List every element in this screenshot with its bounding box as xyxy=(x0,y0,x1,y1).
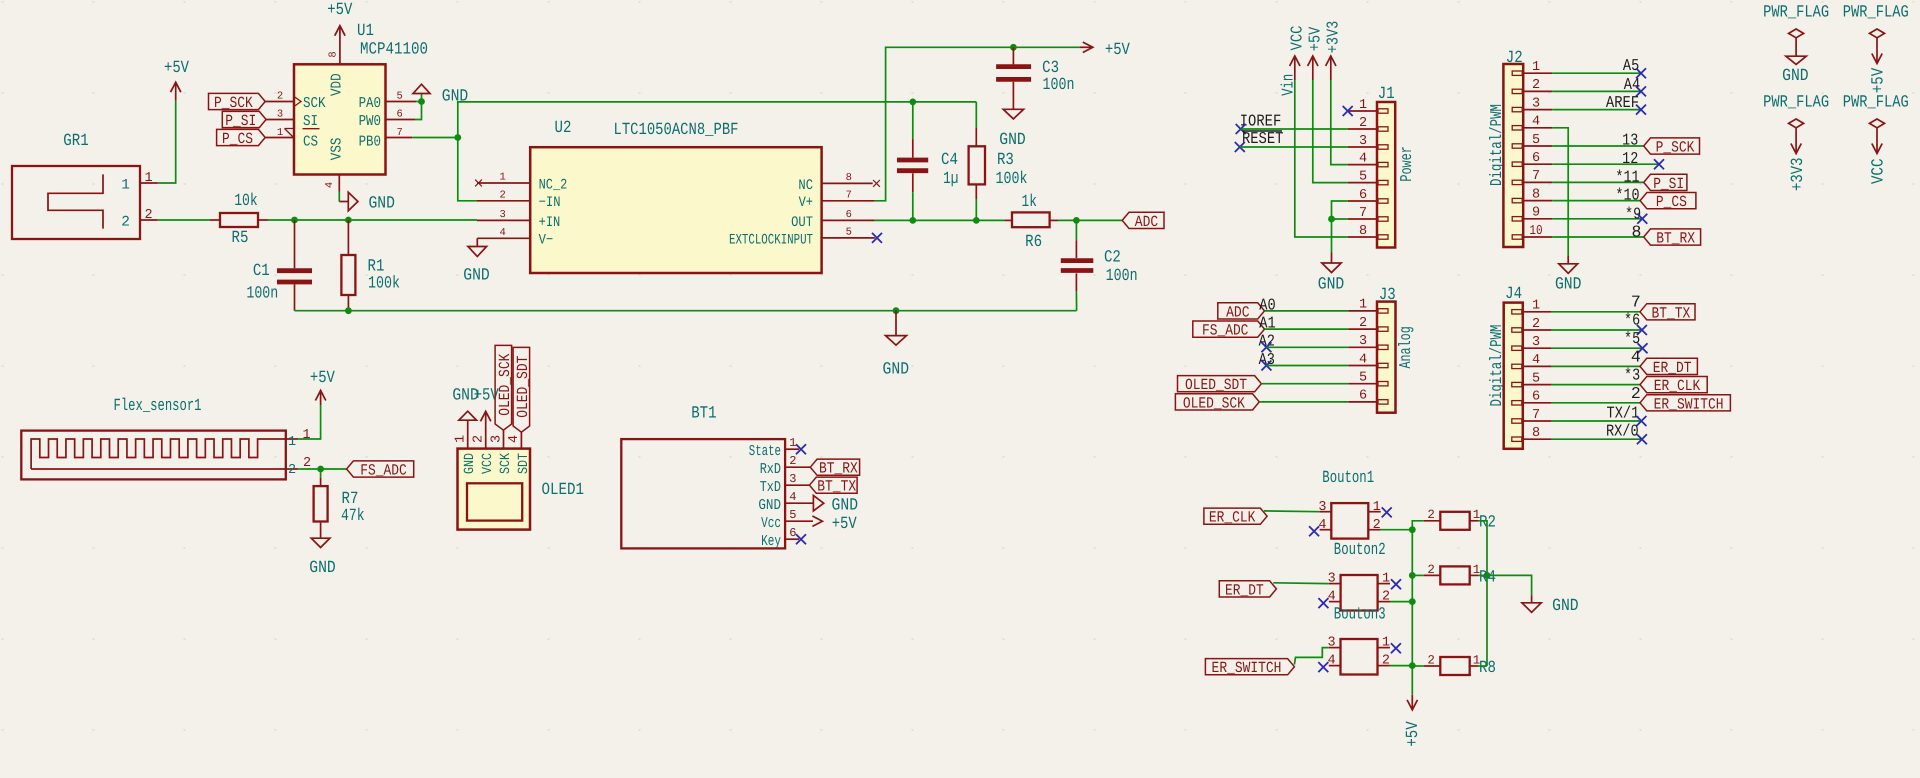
svg-text:*9: *9 xyxy=(1625,204,1641,223)
ground (U2 V-) xyxy=(463,238,490,285)
svg-text:ER_SWITCH: ER_SWITCH xyxy=(1654,395,1724,413)
global label ER_SWITCH (Bouton3) xyxy=(1205,659,1294,675)
svg-text:+5V: +5V xyxy=(310,369,336,388)
svg-text:3: 3 xyxy=(1318,500,1326,515)
svg-text:GND: GND xyxy=(999,131,1026,150)
svg-text:7: 7 xyxy=(1359,206,1367,221)
junction C4 bottom xyxy=(909,217,916,224)
module OLED1 xyxy=(454,435,585,530)
svg-text:BT_TX: BT_TX xyxy=(1652,304,1691,322)
pin State wire xyxy=(785,448,799,450)
svg-text:C4: C4 xyxy=(941,151,958,170)
svg-text:5: 5 xyxy=(397,91,403,103)
svg-text:BT_TX: BT_TX xyxy=(817,478,856,496)
svg-text:8: 8 xyxy=(1632,223,1642,242)
power flag PWR_FLAG +3V3 xyxy=(1763,93,1829,191)
pin 6 xyxy=(1523,163,1552,165)
svg-text:10k: 10k xyxy=(234,192,258,211)
svg-text:100n: 100n xyxy=(1043,76,1075,95)
svg-text:FS_ADC: FS_ADC xyxy=(360,462,407,480)
junction PA0 xyxy=(418,98,425,105)
junction bus Bouton1 xyxy=(1409,526,1416,533)
wire feedback down to R3 xyxy=(975,102,977,128)
svg-text:2: 2 xyxy=(1631,384,1641,403)
connector J3 Analog xyxy=(1348,286,1415,413)
svg-text:+5V: +5V xyxy=(832,515,858,534)
svg-text:GND: GND xyxy=(1318,276,1345,295)
svg-text:*3: *3 xyxy=(1624,365,1640,384)
svg-text:VDD: VDD xyxy=(328,73,345,96)
svg-text:4: 4 xyxy=(499,227,505,239)
pin 1 xyxy=(1368,511,1380,513)
wire J2 pin7 xyxy=(1552,181,1644,183)
svg-text:5: 5 xyxy=(1359,371,1367,386)
svg-text:4: 4 xyxy=(1318,518,1326,533)
svg-text:ADC: ADC xyxy=(1135,213,1158,231)
svg-text:47k: 47k xyxy=(341,507,365,526)
junction C3 top xyxy=(1010,44,1017,51)
svg-text:2: 2 xyxy=(1373,518,1381,533)
svg-text:TxD: TxD xyxy=(760,479,781,496)
svg-text:*5: *5 xyxy=(1624,329,1640,348)
svg-text:A5: A5 xyxy=(1623,56,1639,75)
pin 5 xyxy=(1523,384,1552,386)
svg-text:PA0: PA0 xyxy=(359,95,381,112)
svg-text:5: 5 xyxy=(789,508,796,522)
wire J3 pin5 xyxy=(1261,383,1348,385)
svg-text:GND: GND xyxy=(442,87,469,106)
svg-text:CS: CS xyxy=(303,133,318,150)
svg-text:R6: R6 xyxy=(1025,233,1042,252)
svg-text:3: 3 xyxy=(1532,335,1540,350)
wire J2 pin10 xyxy=(1552,236,1644,238)
svg-text:1: 1 xyxy=(121,178,130,194)
svg-text:GND: GND xyxy=(368,194,395,213)
power VCC (J1) xyxy=(1287,25,1306,80)
svg-text:2: 2 xyxy=(1359,116,1367,131)
wire GR1 pin1 to +5V xyxy=(158,101,176,183)
svg-text:1: 1 xyxy=(1382,572,1390,587)
wire R5 to +IN rail xyxy=(268,219,477,221)
global label BT_RX (BT1) xyxy=(810,459,859,475)
wire -IN feedback vertical xyxy=(458,102,977,201)
svg-text:3: 3 xyxy=(1532,96,1540,111)
pin 1 xyxy=(1523,311,1552,313)
svg-text:3: 3 xyxy=(277,109,283,121)
power +5V (GR1) xyxy=(164,59,190,101)
svg-text:GND: GND xyxy=(1782,67,1809,86)
svg-text:GND: GND xyxy=(883,360,910,379)
svg-text:+3V3: +3V3 xyxy=(1789,157,1808,191)
svg-text:GND: GND xyxy=(758,497,781,514)
svg-text:SCK: SCK xyxy=(303,95,326,112)
ground (OLED pin1) xyxy=(452,387,479,449)
junction bus Bouton2 xyxy=(1409,598,1416,605)
pin 2 xyxy=(140,219,158,221)
wire bottom GND-side rail xyxy=(295,310,1077,312)
global label P_SI xyxy=(222,111,266,127)
no-connect 12 xyxy=(1654,159,1664,169)
pin 3 xyxy=(1329,583,1341,585)
svg-text:4: 4 xyxy=(1328,654,1336,669)
svg-text:1µ: 1µ xyxy=(943,170,958,189)
svg-text:2: 2 xyxy=(1427,563,1435,577)
wire V+ to +5V rail xyxy=(875,47,1080,201)
power flag PWR_FLAG GND xyxy=(1763,3,1829,85)
wire J4 pin4 xyxy=(1552,365,1640,367)
pin 4 xyxy=(1523,127,1552,129)
pin 2 xyxy=(1368,529,1380,531)
pin 6 xyxy=(1348,200,1377,202)
wire bus to R4 xyxy=(1412,574,1424,576)
svg-text:NC: NC xyxy=(798,178,813,194)
pin 2 xyxy=(1348,328,1377,330)
svg-text:FS_ADC: FS_ADC xyxy=(1202,322,1249,340)
pin 2 xyxy=(1523,329,1552,331)
svg-text:3: 3 xyxy=(1328,572,1336,587)
svg-text:5: 5 xyxy=(1532,371,1540,386)
resistor R3 xyxy=(969,128,1028,199)
svg-text:ADC: ADC xyxy=(1226,303,1249,321)
pin 1 NC_2 xyxy=(477,182,530,184)
switch Bouton2 xyxy=(1328,541,1390,611)
pin 5 xyxy=(1523,145,1552,147)
wire J4 pin5 xyxy=(1552,384,1640,386)
svg-text:2: 2 xyxy=(1532,317,1540,332)
global label P_CS xyxy=(217,129,266,145)
svg-text:4: 4 xyxy=(1328,590,1336,605)
power +3V3 (J1) xyxy=(1323,21,1342,80)
resistor R7 xyxy=(314,469,365,531)
svg-text:1: 1 xyxy=(144,171,152,186)
pin 6 xyxy=(1348,401,1377,403)
wire J2 pin5 xyxy=(1552,145,1644,147)
svg-text:1: 1 xyxy=(1373,500,1381,515)
resistor R2 xyxy=(1424,508,1496,533)
svg-text:ER_CLK: ER_CLK xyxy=(1654,377,1701,395)
pin 7 xyxy=(1348,218,1377,220)
no-connect IOREF xyxy=(1236,124,1246,134)
pin 1 xyxy=(1378,583,1390,585)
svg-text:Vcc: Vcc xyxy=(761,515,781,532)
wire ER_DT to Bouton2 pin3 xyxy=(1273,582,1329,585)
pin 1 xyxy=(1523,72,1552,74)
global label ER_DT (Bouton2) xyxy=(1219,581,1276,597)
global label OLED_SCK (OLED pin3) xyxy=(495,345,514,448)
svg-text:+5V: +5V xyxy=(164,59,190,78)
global label BT_TX (BT1) xyxy=(810,477,858,493)
pin 2 -IN xyxy=(477,200,530,202)
svg-text:R8: R8 xyxy=(1479,659,1496,678)
svg-text:OLED_SDT: OLED_SDT xyxy=(514,356,532,418)
junction R3 bottom xyxy=(973,217,980,224)
wire J4 pin7 xyxy=(1552,420,1642,422)
svg-text:8: 8 xyxy=(1532,187,1540,202)
wire J3 pin2 xyxy=(1265,328,1349,330)
junction C4 top xyxy=(909,99,916,106)
svg-text:PWR_FLAG: PWR_FLAG xyxy=(1763,3,1829,22)
ground (U1 PA0) xyxy=(413,84,468,106)
wire J3 pin6 xyxy=(1259,401,1348,403)
power +5V (OLED pin2) xyxy=(474,387,500,449)
ground (R7) xyxy=(309,531,336,579)
svg-text:1: 1 xyxy=(1532,60,1540,75)
wire J4 pin3 xyxy=(1552,347,1643,349)
wire bus to R8 xyxy=(1412,665,1424,667)
svg-text:3: 3 xyxy=(1359,334,1367,349)
svg-text:4: 4 xyxy=(1532,115,1540,130)
wire R6 to ADC xyxy=(1058,219,1122,221)
resistor R4 xyxy=(1424,563,1496,588)
no-connect *6 xyxy=(1637,325,1647,335)
svg-text:R4: R4 xyxy=(1479,568,1496,587)
capacitor C1 xyxy=(246,220,312,311)
global label ADC (J3) xyxy=(1218,303,1265,319)
svg-text:1: 1 xyxy=(499,172,505,184)
power +5V (J1) xyxy=(1305,27,1324,80)
power flag PWR_FLAG VCC xyxy=(1843,93,1909,184)
ground (buttons) xyxy=(1522,595,1579,616)
global label P_SCK xyxy=(209,93,266,109)
power +5V (U1) xyxy=(327,1,353,65)
no-connect pin1 U2 xyxy=(475,180,482,187)
no-connect Bouton3 pin4 xyxy=(1318,662,1328,672)
svg-text:State: State xyxy=(749,443,781,460)
svg-text:8: 8 xyxy=(328,51,340,57)
pin 2 xyxy=(1348,128,1377,130)
wire J4 pin1 xyxy=(1552,311,1640,313)
no-connect Bouton2 pin1 xyxy=(1391,579,1401,589)
svg-text:13: 13 xyxy=(1622,131,1638,150)
wire ER_SWITCH to Bouton3 pin3 xyxy=(1294,648,1328,665)
svg-text:V+: V+ xyxy=(799,195,813,211)
resistor R6 xyxy=(1004,193,1058,252)
svg-text:BT_RX: BT_RX xyxy=(819,460,858,478)
ground (bottom rail) xyxy=(883,311,910,380)
junction PB0/feedback xyxy=(454,134,461,141)
wire Bouton2 pin2 to bus xyxy=(1390,601,1412,603)
wire R2 right down xyxy=(1478,521,1487,666)
svg-text:P_SI: P_SI xyxy=(1653,175,1684,193)
svg-text:1: 1 xyxy=(789,436,796,450)
global label BT_TX (J4) xyxy=(1640,304,1695,320)
ground (U1 VSS) xyxy=(339,192,395,213)
svg-text:6: 6 xyxy=(397,109,403,121)
svg-text:6: 6 xyxy=(1359,389,1367,404)
svg-text:2: 2 xyxy=(472,435,487,443)
wire R8 right xyxy=(1478,665,1487,667)
svg-text:NC_2: NC_2 xyxy=(539,177,568,193)
pin 4 xyxy=(1329,665,1341,667)
svg-text:100k: 100k xyxy=(996,170,1028,189)
switch Bouton1 xyxy=(1318,469,1380,539)
svg-text:R3: R3 xyxy=(997,151,1014,170)
resistor R1 xyxy=(341,220,400,311)
svg-text:2: 2 xyxy=(121,215,130,231)
svg-text:ER_SWITCH: ER_SWITCH xyxy=(1212,659,1282,677)
wire R4 right to gnd xyxy=(1478,575,1532,595)
svg-text:2: 2 xyxy=(499,190,505,202)
svg-text:GND: GND xyxy=(1552,597,1579,616)
svg-text:+5V: +5V xyxy=(327,1,353,20)
svg-text:Key: Key xyxy=(761,533,781,550)
no-connect pin8 U2 xyxy=(873,180,880,187)
pin 4 xyxy=(1348,365,1377,367)
pin 2 xyxy=(1523,90,1552,92)
svg-text:SCK: SCK xyxy=(498,452,514,474)
wire J3 pin4 xyxy=(1266,365,1348,367)
pin 1 CS xyxy=(265,137,294,139)
junction at R1 xyxy=(345,217,352,224)
pin 5 PA0 xyxy=(386,101,417,103)
wire flex pin1 to +5V xyxy=(298,405,320,439)
wire bus to R2 xyxy=(1412,521,1424,530)
junction R1 bottom xyxy=(345,307,352,314)
wire +5V to J1 pin5 xyxy=(1313,80,1348,183)
pin 8 xyxy=(1523,438,1552,440)
power +5V (button bus) xyxy=(1404,695,1423,747)
svg-text:2: 2 xyxy=(277,91,283,103)
pin 1 xyxy=(140,182,158,184)
svg-text:2: 2 xyxy=(144,208,152,223)
junction GND drop xyxy=(893,307,900,314)
wire J4 pin8 xyxy=(1552,438,1642,440)
svg-text:4: 4 xyxy=(507,435,522,443)
no-connect RESET xyxy=(1235,142,1245,152)
svg-text:ER_CLK: ER_CLK xyxy=(1209,509,1256,527)
svg-text:3: 3 xyxy=(489,435,504,443)
pin 2 SCK xyxy=(265,101,294,103)
wire OUT rail xyxy=(875,219,1005,221)
module BT1 xyxy=(621,405,796,550)
svg-text:7: 7 xyxy=(1532,169,1540,184)
pin 3 xyxy=(1523,109,1552,111)
svg-text:Power: Power xyxy=(1397,146,1416,182)
svg-text:C1: C1 xyxy=(253,262,270,281)
global label ER_CLK (J4) xyxy=(1640,377,1707,393)
svg-text:6: 6 xyxy=(1359,188,1367,203)
no-connect TX/1 xyxy=(1636,416,1646,426)
svg-text:2: 2 xyxy=(1382,654,1390,669)
svg-text:Bouton3: Bouton3 xyxy=(1334,606,1386,625)
svg-text:GND: GND xyxy=(832,496,859,515)
ground (C3) xyxy=(999,109,1026,150)
svg-text:+3V3: +3V3 xyxy=(1323,21,1342,54)
pin 8 NC xyxy=(822,182,873,184)
svg-text:9: 9 xyxy=(1532,206,1540,221)
svg-text:SI: SI xyxy=(303,113,318,130)
wire Bouton3 pin2 to bus xyxy=(1390,665,1412,667)
IC U1 MCP41100 xyxy=(265,22,428,192)
svg-text:6: 6 xyxy=(1532,151,1540,166)
connector J2 Digital/PWM xyxy=(1487,49,1552,247)
connector J1 Power xyxy=(1348,85,1416,248)
pin 1 xyxy=(1348,110,1377,112)
pin Key wire xyxy=(785,538,799,540)
pin 2 xyxy=(1378,665,1390,667)
global label OLED_SDT (J3) xyxy=(1178,376,1262,392)
svg-text:RESET: RESET xyxy=(1242,129,1284,148)
sensor GR1 xyxy=(12,132,158,239)
svg-text:GND: GND xyxy=(309,559,336,578)
svg-text:Analog: Analog xyxy=(1396,326,1415,368)
no-connect AREF xyxy=(1636,105,1646,115)
svg-text:GR1: GR1 xyxy=(63,132,88,151)
wire flex pin2 to FS_ADC xyxy=(298,468,346,470)
svg-text:4: 4 xyxy=(1359,352,1367,367)
pin 1 xyxy=(286,438,298,440)
pin 7 PB0 xyxy=(386,137,413,139)
svg-text:VSS: VSS xyxy=(328,138,345,161)
svg-text:VCC: VCC xyxy=(480,453,496,474)
global label P_SCK (J2) xyxy=(1644,138,1700,154)
svg-text:J4: J4 xyxy=(1505,285,1522,304)
no-connect Bouton1 pin4 xyxy=(1309,526,1319,536)
svg-text:6: 6 xyxy=(846,209,852,221)
power flag PWR_FLAG +5V xyxy=(1843,3,1909,93)
svg-text:Flex_sensor1: Flex_sensor1 xyxy=(114,397,202,416)
power +5V (rail arrow) xyxy=(1080,41,1131,60)
svg-text:U1: U1 xyxy=(357,22,374,41)
switch Bouton3 xyxy=(1328,606,1390,675)
svg-text:8: 8 xyxy=(846,172,852,184)
pin 4 V- xyxy=(477,237,530,239)
svg-text:5: 5 xyxy=(1359,169,1367,184)
wire GR1 pin2 to R5 xyxy=(158,219,210,221)
power +5V (flex) xyxy=(310,369,336,405)
svg-text:3: 3 xyxy=(1359,134,1367,149)
global label FS_ADC (flex) xyxy=(347,461,414,477)
svg-text:VCC: VCC xyxy=(1870,158,1889,184)
no-connect RX/0 xyxy=(1637,434,1647,444)
svg-text:−IN: −IN xyxy=(539,195,561,211)
svg-text:7: 7 xyxy=(397,127,403,139)
wire J3 pin3 xyxy=(1266,346,1348,348)
svg-text:4: 4 xyxy=(789,490,796,504)
svg-text:2: 2 xyxy=(1382,590,1390,605)
svg-text:OUT: OUT xyxy=(791,215,813,231)
svg-text:+5V: +5V xyxy=(1870,67,1889,93)
pin 3 xyxy=(1523,347,1552,349)
svg-text:100k: 100k xyxy=(368,275,400,294)
wire J4 pin6 xyxy=(1552,402,1640,404)
pin 4 xyxy=(1320,529,1332,531)
ground (BT1 GND pin) xyxy=(785,496,858,516)
no-connect Bouton3 pin1 xyxy=(1391,643,1401,653)
global label ER_DT (J4) xyxy=(1640,358,1697,374)
wire J1 pin6/pin7 gnd xyxy=(1332,201,1348,253)
svg-text:1: 1 xyxy=(1359,98,1367,113)
svg-text:P_SI: P_SI xyxy=(225,112,256,130)
svg-text:3: 3 xyxy=(789,472,796,486)
pin 3 xyxy=(1320,511,1332,513)
no-connect Bouton2 pin4 xyxy=(1318,598,1328,608)
wire J4 pin2 xyxy=(1552,329,1642,331)
global label BT_RX (J2) xyxy=(1644,229,1701,245)
wire button bus vertical xyxy=(1411,530,1413,695)
svg-text:7: 7 xyxy=(1532,408,1540,423)
no-connect J1 pin1 xyxy=(1343,106,1353,116)
svg-text:*10: *10 xyxy=(1615,186,1639,205)
svg-text:4: 4 xyxy=(1532,353,1540,368)
global label OLED_SCK (J3) xyxy=(1175,394,1259,410)
junction C2 top xyxy=(1073,217,1080,224)
svg-text:1: 1 xyxy=(1359,298,1367,313)
svg-text:R5: R5 xyxy=(232,229,249,248)
pin 4 VSS xyxy=(338,175,340,192)
svg-text:10: 10 xyxy=(1529,224,1542,239)
svg-text:GND: GND xyxy=(462,453,478,474)
